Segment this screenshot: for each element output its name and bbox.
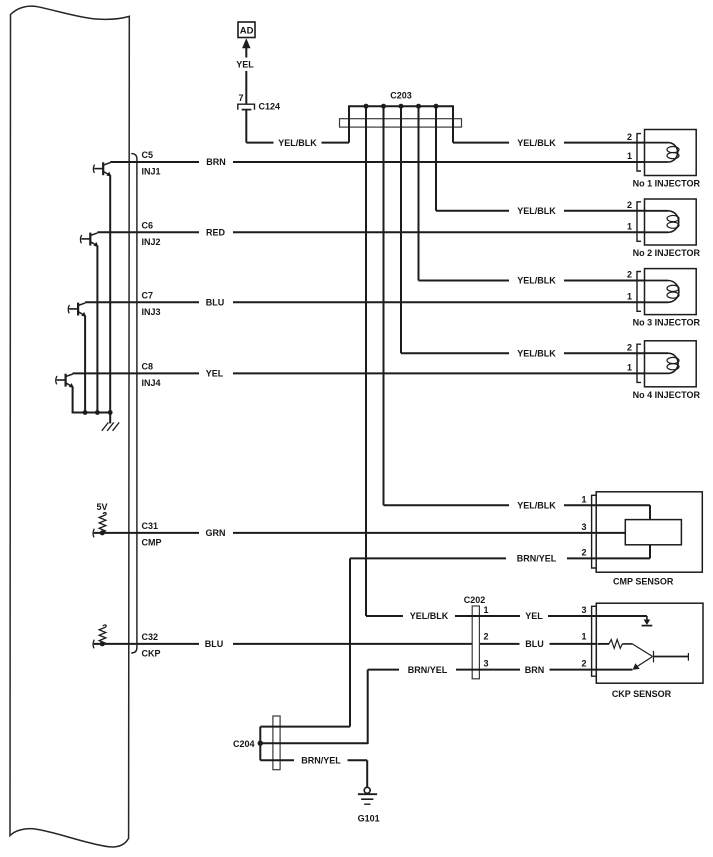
svg-text:INJ4: INJ4 xyxy=(142,378,161,388)
svg-text:BLU: BLU xyxy=(525,639,544,649)
svg-text:BRN: BRN xyxy=(525,665,545,675)
svg-text:CMP SENSOR: CMP SENSOR xyxy=(613,577,674,587)
svg-text:YEL/BLK: YEL/BLK xyxy=(278,138,317,148)
svg-text:C8: C8 xyxy=(142,361,154,371)
svg-text:C6: C6 xyxy=(142,220,154,230)
svg-text:2: 2 xyxy=(627,270,632,280)
svg-text:C5: C5 xyxy=(142,150,154,160)
svg-text:GRN: GRN xyxy=(206,528,226,538)
svg-text:G101: G101 xyxy=(358,813,380,823)
svg-text:2: 2 xyxy=(627,132,632,142)
svg-text:CKP SENSOR: CKP SENSOR xyxy=(612,689,672,699)
svg-text:BLU: BLU xyxy=(206,298,225,308)
svg-text:YEL/BLK: YEL/BLK xyxy=(517,500,556,510)
svg-text:C124: C124 xyxy=(259,102,281,112)
svg-text:No 3 INJECTOR: No 3 INJECTOR xyxy=(633,318,701,328)
svg-text:YEL/BLK: YEL/BLK xyxy=(517,138,556,148)
svg-text:C203: C203 xyxy=(390,91,412,101)
svg-text:C32: C32 xyxy=(142,632,159,642)
svg-text:YEL: YEL xyxy=(236,59,254,69)
svg-text:3: 3 xyxy=(581,605,586,615)
svg-text:3: 3 xyxy=(581,522,586,532)
svg-text:C202: C202 xyxy=(464,595,486,605)
svg-text:INJ2: INJ2 xyxy=(142,237,161,247)
svg-text:2: 2 xyxy=(581,659,586,669)
svg-text:2: 2 xyxy=(627,200,632,210)
svg-text:BRN: BRN xyxy=(206,157,226,167)
svg-text:No 1 INJECTOR: No 1 INJECTOR xyxy=(633,179,701,189)
svg-text:1: 1 xyxy=(627,151,632,161)
svg-text:YEL/BLK: YEL/BLK xyxy=(517,276,556,286)
svg-text:1: 1 xyxy=(484,605,489,615)
svg-text:RED: RED xyxy=(206,228,226,238)
svg-text:INJ3: INJ3 xyxy=(142,307,161,317)
svg-text:1: 1 xyxy=(627,363,632,373)
svg-text:BRN/YEL: BRN/YEL xyxy=(408,665,448,675)
svg-text:C204: C204 xyxy=(233,739,255,749)
svg-text:BRN/YEL: BRN/YEL xyxy=(301,756,341,766)
svg-text:BRN/YEL: BRN/YEL xyxy=(517,554,557,564)
svg-text:INJ1: INJ1 xyxy=(142,167,161,177)
svg-text:CMP: CMP xyxy=(142,538,162,548)
svg-text:YEL: YEL xyxy=(206,369,224,379)
svg-text:No 4 INJECTOR: No 4 INJECTOR xyxy=(633,390,701,400)
svg-text:1: 1 xyxy=(627,222,632,232)
svg-text:YEL: YEL xyxy=(525,611,543,621)
svg-text:1: 1 xyxy=(627,292,632,302)
svg-text:2: 2 xyxy=(627,342,632,352)
svg-text:BLU: BLU xyxy=(205,639,224,649)
svg-text:2: 2 xyxy=(581,548,586,558)
svg-text:7: 7 xyxy=(238,93,243,103)
svg-text:YEL/BLK: YEL/BLK xyxy=(517,206,556,216)
svg-text:C7: C7 xyxy=(142,290,154,300)
svg-text:YEL/BLK: YEL/BLK xyxy=(517,348,556,358)
svg-text:3: 3 xyxy=(484,659,489,669)
svg-text:1: 1 xyxy=(581,494,586,504)
svg-text:YEL/BLK: YEL/BLK xyxy=(410,611,449,621)
svg-text:AD: AD xyxy=(240,26,254,37)
svg-text:5V: 5V xyxy=(96,502,107,512)
svg-text:C31: C31 xyxy=(142,521,159,531)
svg-text:2: 2 xyxy=(484,632,489,642)
svg-text:1: 1 xyxy=(581,632,586,642)
svg-text:CKP: CKP xyxy=(142,649,161,659)
svg-text:No 2 INJECTOR: No 2 INJECTOR xyxy=(633,248,701,258)
